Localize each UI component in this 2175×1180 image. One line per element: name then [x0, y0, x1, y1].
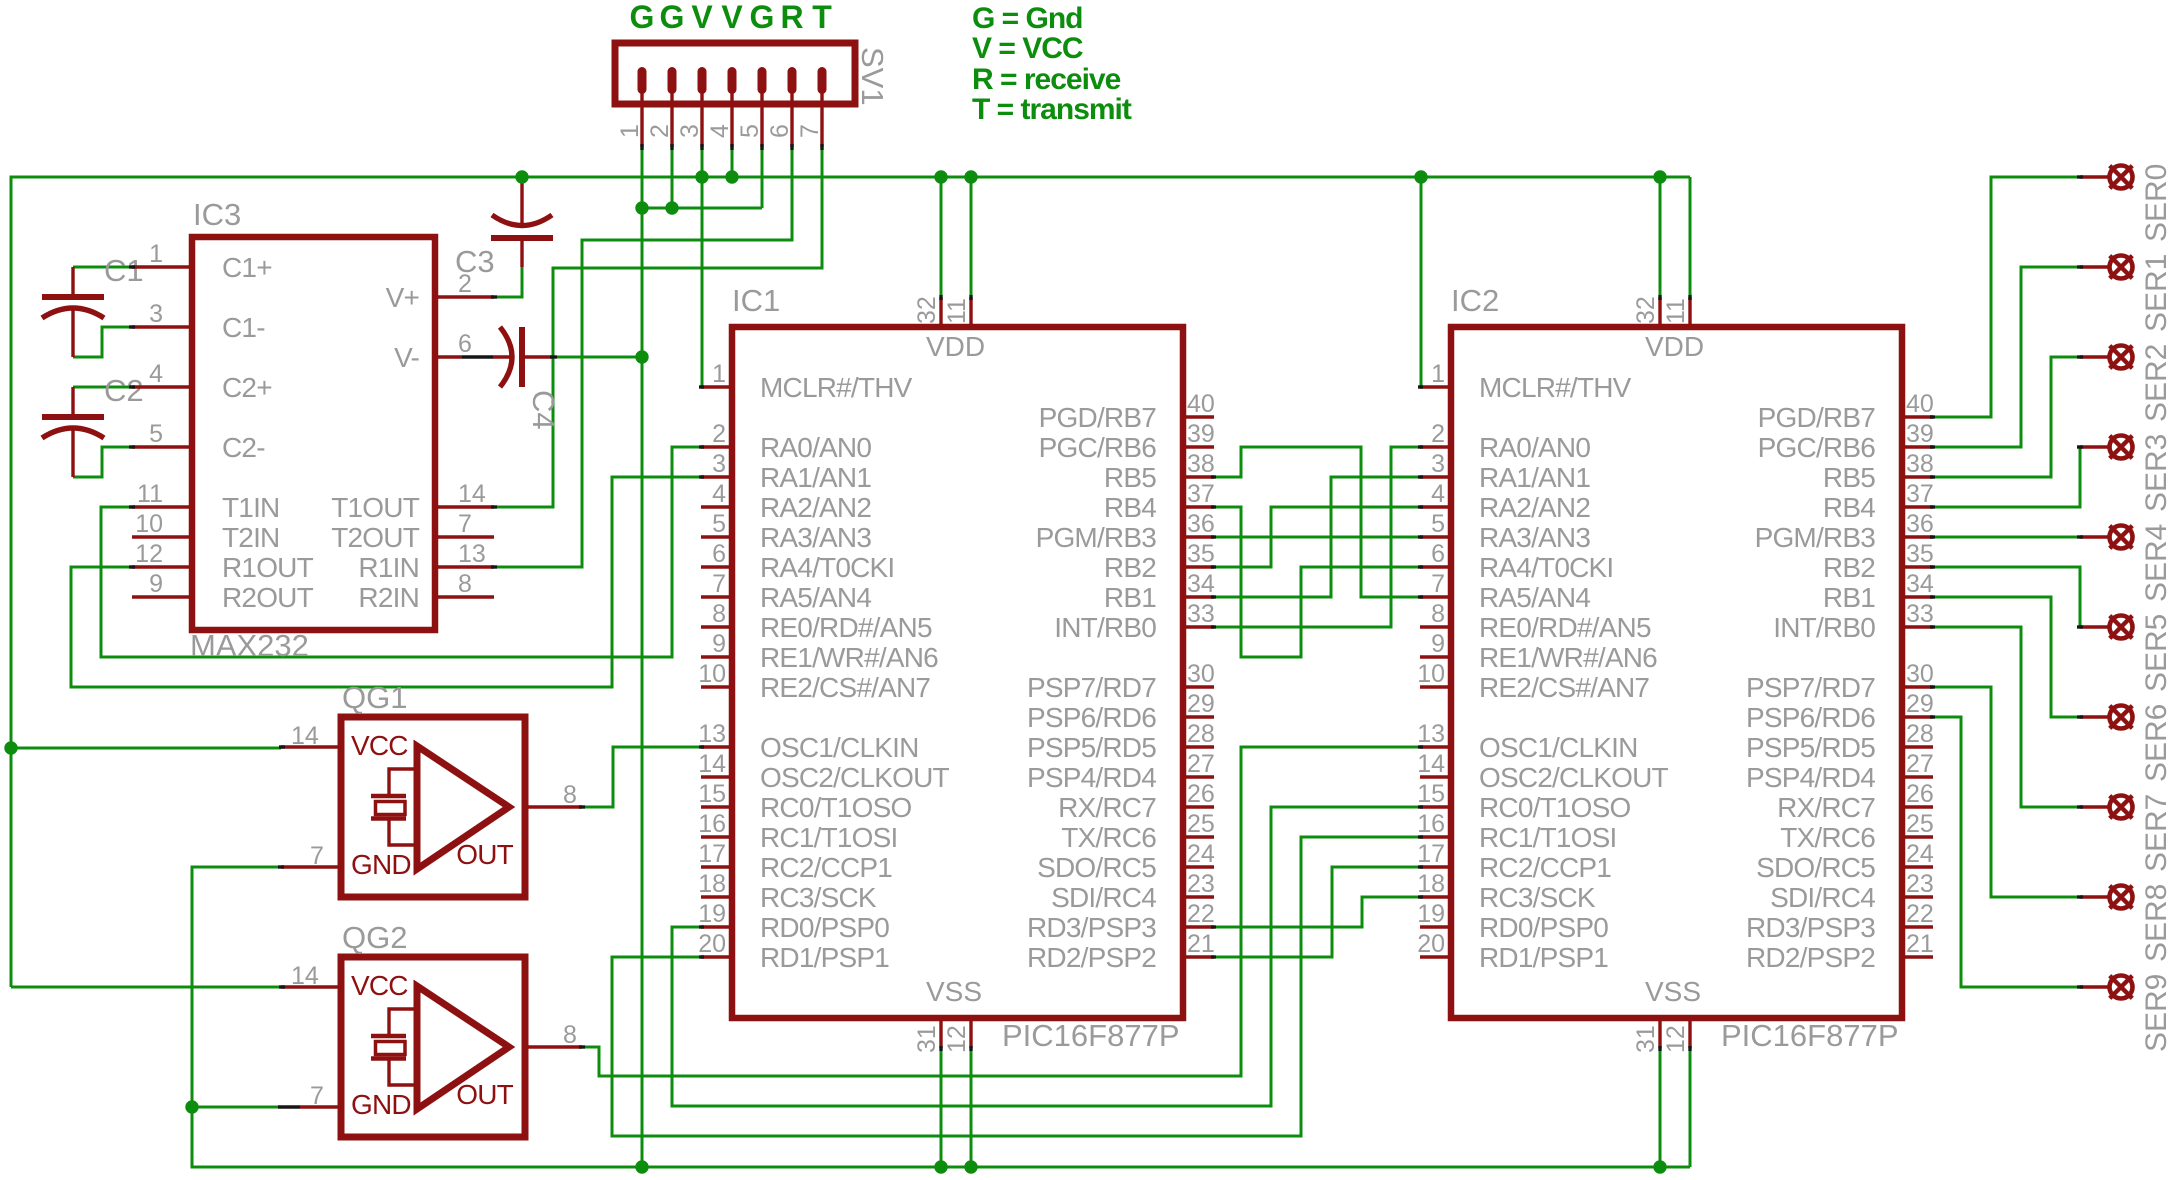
svg-text:PSP6/RD6: PSP6/RD6 [1746, 702, 1875, 733]
wire net VCC to QG1 VCC pin14 [11, 747, 281, 750]
svg-text:RD0/PSP0: RD0/PSP0 [760, 912, 889, 943]
svg-text:1: 1 [712, 360, 726, 388]
svg-text:11: 11 [943, 298, 971, 324]
svg-text:PSP4/RD4: PSP4/RD4 [1027, 762, 1156, 793]
pin 35 IC2 RB2 [1902, 565, 1933, 568]
connector pad SER6 [2080, 706, 2133, 729]
pin 7 IC3 T2OUT [435, 535, 494, 538]
ic IC1 PIC16F877P body [732, 327, 1183, 1018]
pin 17 IC2 RC2/CCP1 [1420, 865, 1451, 868]
svg-text:32: 32 [913, 296, 941, 324]
pin 36 IC2 PGM/RB3 [1902, 535, 1933, 538]
svg-text:OUT: OUT [456, 839, 513, 870]
svg-text:34: 34 [1906, 570, 1934, 598]
node GND junction SV1 pin2 [665, 201, 678, 214]
pin 32 IC1 VDD [939, 297, 942, 327]
svg-text:RA4/T0CKI: RA4/T0CKI [760, 552, 894, 583]
svg-text:G = Gnd: G = Gnd [972, 2, 1083, 35]
svg-text:T = transmit: T = transmit [972, 93, 1132, 126]
svg-text:6: 6 [458, 330, 472, 358]
SER7 tick [2077, 805, 2083, 808]
svg-text:6: 6 [1431, 540, 1445, 568]
pin 39 IC1 PGC/RB6 [1183, 445, 1214, 448]
node VCC junction IC2 pin32 [1653, 170, 1666, 183]
svg-text:11: 11 [1662, 298, 1690, 324]
wire net IC2 RB3 to SER4 [1932, 536, 2080, 539]
node GND junction IC1 pin12 [964, 1160, 977, 1173]
wire net IC1 RB2 to IC2 RA2 [1213, 507, 1421, 567]
svg-text:RA5/AN4: RA5/AN4 [1479, 582, 1590, 613]
node VCC junction IC1 pin32 [934, 170, 947, 183]
svg-text:PGC/RB6: PGC/RB6 [1039, 432, 1157, 463]
node VCC junction IC2 MCLR [1414, 170, 1427, 183]
svg-text:38: 38 [1906, 450, 1934, 478]
svg-text:RA1/AN1: RA1/AN1 [760, 462, 871, 493]
pin 33 IC1 INT/RB0 [1183, 625, 1214, 628]
svg-text:GND: GND [351, 1089, 411, 1120]
svg-text:3: 3 [149, 300, 163, 328]
svg-text:RX/RC7: RX/RC7 [1058, 792, 1156, 823]
svg-text:RC2/CCP1: RC2/CCP1 [760, 852, 892, 883]
wire net IC1 RB4 to IC2 RA4 [1213, 507, 1421, 657]
connector pad SER1 [2080, 256, 2133, 279]
svg-text:T2OUT: T2OUT [331, 522, 419, 553]
svg-text:5: 5 [149, 420, 163, 448]
svg-text:6: 6 [766, 124, 794, 138]
pin 9 IC3 R2OUT [132, 595, 192, 598]
QG2 pin ticks [279, 987, 585, 1047]
SER1 tick [2077, 265, 2083, 268]
svg-text:29: 29 [1906, 690, 1934, 718]
svg-text:RA2/AN2: RA2/AN2 [760, 492, 871, 523]
svg-text:R2OUT: R2OUT [222, 582, 314, 613]
wire net R1OUT to IC1 RA1 [71, 477, 701, 687]
pin 11 IC1 VDD [969, 297, 972, 327]
node GND junction IC1 pin31 [934, 1160, 947, 1173]
svg-text:R2IN: R2IN [358, 582, 419, 613]
svg-text:G: G [660, 0, 685, 35]
pin 14 IC3 T1OUT [435, 505, 494, 508]
svg-text:SDI/RC4: SDI/RC4 [1770, 882, 1875, 913]
pin 8 IC2 RE0/RD#/AN5 [1420, 625, 1451, 628]
pin 7 QG1 GND [281, 865, 341, 868]
pin 1 IC1 MCLR#/THV [701, 385, 732, 388]
svg-text:16: 16 [1417, 810, 1445, 838]
svg-text:RA3/AN3: RA3/AN3 [1479, 522, 1590, 553]
pin 8 IC3 R2IN [435, 595, 494, 598]
svg-text:SER4: SER4 [2140, 524, 2173, 602]
svg-text:35: 35 [1187, 540, 1215, 568]
svg-text:SER9: SER9 [2140, 974, 2173, 1052]
node GND junction IC2 pin31 [1653, 1160, 1666, 1173]
pin 6 IC2 RA4/T0CKI [1420, 565, 1451, 568]
node GND junction QG2 [185, 1100, 198, 1113]
pin 37 IC1 RB4 [1183, 505, 1214, 508]
junction tick C4 right [550, 355, 557, 358]
pin 10 IC2 RE2/CS#/AN7 [1420, 685, 1451, 688]
svg-text:33: 33 [1906, 600, 1934, 628]
node VCC junction at C3 [515, 170, 528, 183]
svg-text:15: 15 [1417, 780, 1445, 808]
node VCC junction IC1 pin11 [964, 170, 977, 183]
svg-text:IC3: IC3 [193, 197, 241, 232]
svg-text:8: 8 [712, 600, 726, 628]
pin 27 IC2 PSP4/RD4 [1902, 775, 1933, 778]
svg-text:V: V [721, 0, 743, 35]
connector pad SER3 [2080, 436, 2133, 459]
svg-text:C4: C4 [526, 390, 561, 430]
wire net VCC: IC2 MCLR riser [1420, 177, 1423, 387]
svg-text:28: 28 [1187, 720, 1215, 748]
pin 19 IC1 RD0/PSP0 [701, 925, 732, 928]
svg-text:10: 10 [1417, 660, 1445, 688]
svg-text:SER2: SER2 [2140, 344, 2173, 422]
node VCC junction at SV1 pin4 [725, 170, 738, 183]
svg-text:SV1: SV1 [855, 47, 890, 106]
svg-text:RD2/PSP2: RD2/PSP2 [1027, 942, 1156, 973]
svg-text:R: R [780, 0, 803, 35]
SER6 tick [2077, 715, 2083, 718]
svg-text:31: 31 [1632, 1025, 1660, 1053]
svg-text:OSC1/CLKIN: OSC1/CLKIN [1479, 732, 1638, 763]
pin 18 IC2 RC3/SCK [1420, 895, 1451, 898]
svg-text:SER7: SER7 [2140, 794, 2173, 872]
svg-text:5: 5 [1431, 510, 1445, 538]
svg-text:RX/RC7: RX/RC7 [1777, 792, 1875, 823]
svg-text:7: 7 [310, 842, 324, 870]
svg-text:RA2/AN2: RA2/AN2 [1479, 492, 1590, 523]
pin 38 IC2 RB5 [1902, 475, 1933, 478]
pin 15 IC1 RC0/T1OSO [701, 805, 732, 808]
pin 6 IC1 RA4/T0CKI [701, 565, 732, 568]
svg-text:7: 7 [1431, 570, 1445, 598]
wire net GND: IC1 pin31 riser [940, 1048, 943, 1167]
svg-text:VDD: VDD [1645, 331, 1704, 362]
svg-text:RC3/SCK: RC3/SCK [760, 882, 877, 913]
svg-text:RA5/AN4: RA5/AN4 [760, 582, 871, 613]
pin 36 IC1 PGM/RB3 [1183, 535, 1214, 538]
pin 40 IC1 PGD/RB7 [1183, 415, 1214, 418]
pin 14 IC1 OSC2/CLKOUT [701, 775, 732, 778]
wire net GND: IC2 pin31 riser [1659, 1048, 1662, 1167]
wire net IC1 RB1 to IC2 RA1 [1213, 477, 1421, 597]
wire net IC1 RB5 to IC2 RA5 [1213, 447, 1421, 597]
connector pad SER8 [2080, 886, 2133, 909]
pin 3 IC3 C1- [132, 325, 192, 328]
svg-text:RC2/CCP1: RC2/CCP1 [1479, 852, 1611, 883]
svg-text:G: G [750, 0, 775, 35]
svg-text:24: 24 [1187, 840, 1215, 868]
svg-text:RE1/WR#/AN6: RE1/WR#/AN6 [1479, 642, 1657, 673]
SER3 tick [2077, 445, 2083, 448]
svg-text:T1OUT: T1OUT [331, 492, 419, 523]
pin 13 IC2 OSC1/CLKIN [1420, 745, 1451, 748]
svg-text:OSC2/CLKOUT: OSC2/CLKOUT [760, 762, 949, 793]
pin 28 IC1 PSP5/RD5 [1183, 745, 1214, 748]
svg-text:RD3/PSP3: RD3/PSP3 [1746, 912, 1875, 943]
pin 29 IC1 PSP6/RD6 [1183, 715, 1214, 718]
svg-text:PSP5/RD5: PSP5/RD5 [1027, 732, 1156, 763]
svg-text:13: 13 [1417, 720, 1445, 748]
wire net GND: IC2 pin12 riser [1689, 1048, 1692, 1167]
svg-text:G: G [630, 0, 655, 35]
svg-text:19: 19 [698, 900, 726, 928]
svg-text:8: 8 [563, 781, 577, 809]
svg-text:RB2: RB2 [1823, 552, 1875, 583]
svg-text:RC1/T1OSI: RC1/T1OSI [1479, 822, 1617, 853]
wire net IC1 RB3 to IC2 RA3 [1213, 536, 1421, 539]
svg-text:RB4: RB4 [1104, 492, 1156, 523]
connector pad SER4 [2080, 526, 2133, 549]
pin 14 QG1 VCC [281, 745, 341, 748]
pin 16 IC2 RC1/T1OSI [1420, 835, 1451, 838]
wire net GND: IC1 pin12 riser [970, 1048, 973, 1167]
svg-text:20: 20 [1417, 930, 1445, 958]
svg-text:5: 5 [712, 510, 726, 538]
pin 34 IC2 RB1 [1902, 595, 1933, 598]
svg-text:C1: C1 [104, 253, 144, 288]
pin 4 IC3 C2+ [132, 385, 192, 388]
svg-text:2: 2 [712, 420, 726, 448]
pin 26 IC2 RX/RC7 [1902, 805, 1933, 808]
connector pad SER9 [2080, 976, 2133, 999]
pin 6 IC3 V- [435, 355, 462, 358]
wire net GND: SV1 pins 1-2-5 tie [642, 207, 762, 210]
svg-text:3: 3 [1431, 450, 1445, 478]
svg-text:V = VCC: V = VCC [972, 32, 1083, 65]
svg-text:RB5: RB5 [1104, 462, 1156, 493]
svg-text:T2IN: T2IN [222, 522, 279, 553]
connector pad SER0 [2080, 166, 2133, 189]
svg-text:IC2: IC2 [1451, 283, 1499, 318]
pin 12 IC2 VSS [1688, 1018, 1691, 1048]
svg-text:RC3/SCK: RC3/SCK [1479, 882, 1596, 913]
svg-text:PGM/RB3: PGM/RB3 [1036, 522, 1157, 553]
svg-text:C2: C2 [104, 373, 144, 408]
svg-text:OUT: OUT [456, 1079, 513, 1110]
svg-text:QG2: QG2 [342, 920, 407, 955]
svg-text:7: 7 [458, 510, 472, 538]
svg-text:1: 1 [616, 124, 644, 138]
wire net IC2 RB4 to SER3 [1932, 447, 2080, 507]
pin 20 IC2 RD1/PSP1 [1420, 955, 1451, 958]
svg-text:29: 29 [1187, 690, 1215, 718]
wire net C2 bottom to MAX232 C2- [73, 447, 132, 477]
svg-text:MCLR#/THV: MCLR#/THV [1479, 372, 1632, 403]
svg-text:39: 39 [1187, 420, 1215, 448]
svg-text:IC1: IC1 [732, 283, 780, 318]
pin 18 IC1 RC3/SCK [701, 895, 732, 898]
svg-text:RA0/AN0: RA0/AN0 [760, 432, 871, 463]
svg-text:17: 17 [698, 840, 726, 868]
svg-text:PSP4/RD4: PSP4/RD4 [1746, 762, 1875, 793]
svg-text:17: 17 [1417, 840, 1445, 868]
svg-text:36: 36 [1906, 510, 1934, 538]
svg-text:PIC16F877P: PIC16F877P [1721, 1018, 1899, 1053]
svg-text:R1IN: R1IN [358, 552, 419, 583]
svg-text:RD1/PSP1: RD1/PSP1 [760, 942, 889, 973]
svg-text:23: 23 [1187, 870, 1215, 898]
pin 3 IC1 RA1/AN1 [701, 475, 732, 478]
svg-text:21: 21 [1906, 930, 1934, 958]
svg-text:VDD: VDD [926, 331, 985, 362]
wire net VCC to QG2 VCC pin14 [11, 986, 281, 989]
wire net IC2 RB7 to SER0 [1932, 177, 2080, 417]
svg-text:R1OUT: R1OUT [222, 552, 314, 583]
SER5 tick [2077, 625, 2083, 628]
wire net C2 top to MAX232 C2+ [73, 386, 132, 389]
svg-text:14: 14 [291, 962, 319, 990]
connector pad SER5 [2080, 616, 2133, 639]
svg-text:PSP6/RD6: PSP6/RD6 [1027, 702, 1156, 733]
pin 12 IC3 R1OUT [132, 565, 192, 568]
svg-text:RE0/RD#/AN5: RE0/RD#/AN5 [760, 612, 932, 643]
svg-text:9: 9 [1431, 630, 1445, 658]
pin 16 IC1 RC1/T1OSI [701, 835, 732, 838]
pin 13 IC1 OSC1/CLKIN [701, 745, 732, 748]
oscillator QG1 [341, 717, 525, 897]
pin 24 IC1 SDO/RC5 [1183, 865, 1214, 868]
svg-text:TX/RC6: TX/RC6 [1061, 822, 1156, 853]
svg-text:C1-: C1- [222, 312, 265, 343]
pin 4 IC2 RA2/AN2 [1420, 505, 1451, 508]
svg-text:30: 30 [1906, 660, 1934, 688]
wire net T1IN to IC1 RA0 [101, 447, 701, 657]
svg-text:INT/RB0: INT/RB0 [1054, 612, 1156, 643]
wire net VCC: IC2 pin11 riser [1689, 177, 1692, 297]
svg-text:R = receive: R = receive [972, 63, 1121, 96]
wire net RXD: MAX232 R1IN to SV1 pin6 [494, 147, 792, 567]
QG2 GND black segment [278, 1105, 300, 1108]
pin 32 IC2 VDD [1658, 297, 1661, 327]
svg-text:9: 9 [149, 570, 163, 598]
pin 13 IC3 R1IN [435, 565, 494, 568]
svg-text:14: 14 [458, 480, 486, 508]
pin 9 IC2 RE1/WR#/AN6 [1420, 655, 1451, 658]
pin 25 IC2 TX/RC6 [1902, 835, 1933, 838]
svg-text:5: 5 [736, 124, 764, 138]
svg-text:RE2/CS#/AN7: RE2/CS#/AN7 [1479, 672, 1649, 703]
pin 10 IC3 T2IN [132, 535, 192, 538]
svg-text:7: 7 [796, 124, 824, 138]
wire net VCC: IC1 pin11 riser [970, 177, 973, 297]
svg-text:30: 30 [1187, 660, 1215, 688]
svg-text:SDO/RC5: SDO/RC5 [1756, 852, 1875, 883]
svg-text:GND: GND [351, 849, 411, 880]
svg-text:RC0/T1OSO: RC0/T1OSO [1479, 792, 1631, 823]
svg-text:9: 9 [712, 630, 726, 658]
wire net GND: QG1 GND down to bottom bus [192, 867, 1690, 1167]
svg-text:PSP7/RD7: PSP7/RD7 [1746, 672, 1875, 703]
svg-text:RB1: RB1 [1823, 582, 1875, 613]
svg-text:12: 12 [1662, 1025, 1690, 1053]
svg-text:14: 14 [1417, 750, 1445, 778]
pin 1 IC2 MCLR#/THV [1420, 385, 1451, 388]
svg-text:SER8: SER8 [2140, 884, 2173, 962]
svg-text:TX/RC6: TX/RC6 [1780, 822, 1875, 853]
svg-text:4: 4 [1431, 480, 1445, 508]
pin 20 IC1 RD1/PSP1 [701, 955, 732, 958]
wire net GND: SV1 pin1 long drop [641, 147, 644, 1167]
svg-text:SER5: SER5 [2140, 614, 2173, 692]
pin 2 IC1 RA0/AN0 [701, 445, 732, 448]
wire net IC1 RD1 to IC2 RC1 [612, 837, 1421, 1136]
node GND junction C4 [635, 350, 648, 363]
svg-text:RE0/RD#/AN5: RE0/RD#/AN5 [1479, 612, 1651, 643]
pin 2 IC2 RA0/AN0 [1420, 445, 1451, 448]
svg-text:2: 2 [1431, 420, 1445, 448]
svg-text:20: 20 [698, 930, 726, 958]
wire net VCC: SV1 pin3 riser to IC1 MCLR [701, 147, 704, 387]
pin 39 IC2 PGC/RB6 [1902, 445, 1933, 448]
svg-text:35: 35 [1906, 540, 1934, 568]
svg-text:34: 34 [1187, 570, 1215, 598]
SER0 tick [2077, 175, 2083, 178]
svg-text:13: 13 [698, 720, 726, 748]
pin 30 IC2 PSP7/RD7 [1902, 685, 1933, 688]
svg-text:V+: V+ [386, 282, 419, 313]
node GND junction bus/SV1 pin1 [635, 1160, 648, 1173]
svg-text:RB2: RB2 [1104, 552, 1156, 583]
wire net GND: C4 to pin1 drop [556, 356, 642, 359]
svg-text:25: 25 [1187, 810, 1215, 838]
svg-text:14: 14 [291, 722, 319, 750]
svg-text:C1+: C1+ [222, 252, 272, 283]
connector SV1 [615, 43, 855, 147]
pin 5 IC1 RA3/AN3 [701, 535, 732, 538]
svg-text:18: 18 [698, 870, 726, 898]
pin 23 IC1 SDI/RC4 [1183, 895, 1214, 898]
svg-text:37: 37 [1906, 480, 1934, 508]
pin 40 IC2 PGD/RB7 [1902, 415, 1933, 418]
svg-text:33: 33 [1187, 600, 1215, 628]
svg-text:RB1: RB1 [1104, 582, 1156, 613]
svg-text:39: 39 [1906, 420, 1934, 448]
svg-text:OSC2/CLKOUT: OSC2/CLKOUT [1479, 762, 1668, 793]
svg-text:SDI/RC4: SDI/RC4 [1051, 882, 1156, 913]
pin 8 QG2 OUT [525, 1045, 582, 1048]
pin 8 IC1 RE0/RD#/AN5 [701, 625, 732, 628]
svg-text:23: 23 [1906, 870, 1934, 898]
svg-text:RD1/PSP1: RD1/PSP1 [1479, 942, 1608, 973]
svg-text:13: 13 [458, 540, 486, 568]
svg-text:31: 31 [913, 1025, 941, 1053]
IC2 pin wire ticks [1418, 295, 1935, 1051]
pin 7 IC2 RA5/AN4 [1420, 595, 1451, 598]
svg-text:4: 4 [149, 360, 163, 388]
svg-text:7: 7 [310, 1082, 324, 1110]
pin 21 IC1 RD2/PSP2 [1183, 955, 1214, 958]
svg-text:40: 40 [1906, 390, 1934, 418]
pin 31 IC2 VSS [1658, 1018, 1661, 1048]
pin 8 QG1 OUT [525, 805, 582, 808]
wire net IC2 RB0 to SER7 [1932, 627, 2080, 807]
pin 19 IC2 RD0/PSP0 [1420, 925, 1451, 928]
svg-text:V-: V- [394, 342, 419, 373]
pin 12 IC1 VSS [969, 1018, 972, 1048]
svg-text:RE1/WR#/AN6: RE1/WR#/AN6 [760, 642, 938, 673]
pin 17 IC1 RC2/CCP1 [701, 865, 732, 868]
svg-text:25: 25 [1906, 810, 1934, 838]
svg-text:32: 32 [1632, 296, 1660, 324]
svg-text:26: 26 [1906, 780, 1934, 808]
svg-text:V: V [691, 0, 713, 35]
svg-text:SER6: SER6 [2140, 704, 2173, 782]
svg-text:26: 26 [1187, 780, 1215, 808]
wire net GND: SV1 pin5 riser [761, 147, 764, 208]
svg-text:PIC16F877P: PIC16F877P [1002, 1018, 1180, 1053]
svg-text:RE2/CS#/AN7: RE2/CS#/AN7 [760, 672, 930, 703]
